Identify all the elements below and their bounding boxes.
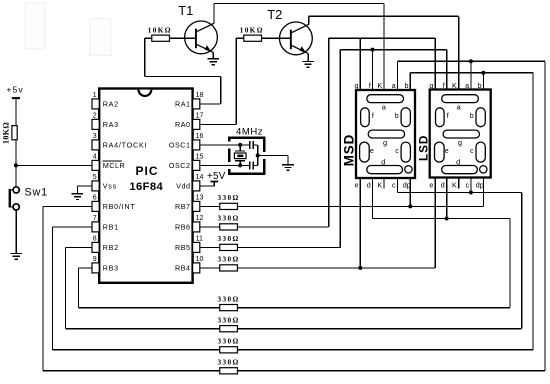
- svg-text:d: d: [381, 157, 385, 166]
- segment a (LSD): [442, 95, 479, 103]
- wire T2 collector to LSD K pin: [309, 16, 459, 89]
- segment e (LSD): [435, 142, 445, 162]
- svg-text:16: 16: [196, 133, 204, 140]
- node OSC1/crystal junction: [238, 143, 242, 147]
- svg-text:c: c: [466, 181, 470, 190]
- ground (T2): [302, 62, 314, 68]
- svg-text:c: c: [395, 148, 399, 155]
- segment c (LSD): [476, 142, 485, 162]
- svg-text:16F84: 16F84: [129, 181, 163, 193]
- MSD top pin labels: [355, 81, 409, 90]
- node MCLR junction: [14, 163, 18, 167]
- wire RA0 pin 17 to T2 base resistor: [200, 38, 244, 124]
- resistor R11 330&#937;: [218, 359, 240, 374]
- svg-text:b: b: [478, 81, 482, 90]
- svg-text:Sw1: Sw1: [25, 186, 48, 198]
- svg-text:RA4/TOCKI: RA4/TOCKI: [103, 141, 148, 150]
- wire RB7 pin 13 to resistor: [200, 205, 220, 207]
- wire bottom row RB2 to right riser: [237, 328, 521, 330]
- wire Vss pin 5 to ground: [77, 185, 92, 187]
- svg-text:10KΩ: 10KΩ: [1, 122, 10, 144]
- svg-text:RB4: RB4: [175, 264, 191, 273]
- pin 15 OSC2: [169, 154, 204, 171]
- wire Sw1 to ground: [15, 210, 17, 254]
- svg-text:K: K: [452, 181, 457, 190]
- svg-text:c: c: [392, 181, 396, 190]
- svg-text:MSD: MSD: [341, 134, 356, 166]
- node MSD dp junction: [408, 204, 412, 208]
- pin 6 RB0/INT: [92, 195, 136, 212]
- svg-text:g: g: [429, 81, 433, 90]
- wire segment c (RB2 riser and c-line to displays): [397, 178, 521, 329]
- svg-text:13: 13: [196, 195, 204, 202]
- wire +5v to pull-up resistor: [15, 99, 17, 126]
- resistor R8 330&#937;: [218, 295, 240, 310]
- svg-text:Vdd: Vdd: [176, 182, 190, 191]
- svg-text:f: f: [372, 113, 374, 120]
- LSD top pin labels: [429, 81, 481, 90]
- svg-text:17: 17: [196, 113, 204, 120]
- resistor R6 330&#937;: [218, 235, 240, 250]
- svg-text:11: 11: [196, 236, 203, 243]
- wire segment e (RB4 row to displays): [237, 178, 435, 268]
- svg-text:330Ω: 330Ω: [218, 235, 240, 243]
- 7-segment display MSD: [341, 90, 415, 178]
- svg-text:10KΩ: 10KΩ: [148, 27, 172, 35]
- crystal oscillator module box (4MHz): [228, 127, 266, 175]
- pin 4 MCLR: [92, 154, 125, 171]
- svg-text:4: 4: [93, 154, 97, 161]
- svg-text:18: 18: [196, 92, 204, 99]
- svg-text:14: 14: [196, 174, 204, 181]
- svg-text:a: a: [465, 81, 469, 90]
- svg-text:f: f: [447, 113, 449, 120]
- svg-text:d: d: [456, 157, 460, 166]
- wire segment a (RB0 riser and a-line to displays): [397, 61, 545, 371]
- ground (Sw1): [10, 254, 22, 260]
- svg-text:e: e: [445, 148, 449, 155]
- svg-text:f: f: [369, 81, 371, 90]
- wire bottom row RB0 to right riser: [237, 370, 545, 372]
- resistor R4 330&#937;: [218, 194, 240, 209]
- svg-text:330Ω: 330Ω: [218, 338, 240, 346]
- capacitor C2 (bottom): [250, 162, 258, 170]
- node LSD a junction: [469, 59, 473, 63]
- segment c (MSD): [401, 142, 410, 162]
- svg-text:330Ω: 330Ω: [218, 316, 240, 324]
- wire RB0 pin 6 to bottom row: [43, 206, 220, 370]
- wire T1 emitter to ground: [212, 52, 214, 59]
- svg-text:330Ω: 330Ω: [218, 359, 240, 367]
- svg-text:d: d: [441, 181, 445, 190]
- svg-text:PIC: PIC: [135, 164, 158, 178]
- node MSD f junction: [371, 48, 375, 52]
- pin 2 RA3: [92, 113, 119, 130]
- node LSD b junction: [481, 71, 485, 75]
- capacitor C1 (top): [250, 141, 258, 149]
- svg-text:T1: T1: [178, 3, 193, 18]
- segment a (MSD): [367, 95, 404, 103]
- svg-text:dp: dp: [403, 181, 411, 190]
- svg-text:d: d: [367, 181, 371, 190]
- svg-text:7: 7: [93, 215, 97, 222]
- LSD bottom pin labels: [429, 181, 483, 190]
- svg-text:10KΩ: 10KΩ: [240, 27, 264, 35]
- node LSD c junction: [469, 191, 473, 195]
- switch Sw1 (push button): [9, 186, 48, 210]
- ground (Vss): [72, 194, 84, 200]
- pin 11 RB5: [175, 236, 203, 253]
- svg-text:2: 2: [93, 113, 97, 120]
- wire T2 emitter to ground: [307, 53, 309, 61]
- pin 1 RA2: [92, 92, 119, 109]
- wire OSC1 pin 16 to crystal: [200, 144, 250, 146]
- resistor R9 330&#937;: [218, 316, 240, 331]
- IC U1 PIC 16F84 body: [99, 89, 192, 283]
- svg-text:10: 10: [196, 256, 204, 263]
- svg-text:Vss: Vss: [103, 182, 117, 191]
- MSD bottom pin labels: [355, 181, 411, 190]
- svg-text:RB1: RB1: [103, 223, 119, 232]
- wire pull-up to MCLR node: [15, 140, 17, 166]
- svg-text:15: 15: [196, 154, 204, 161]
- svg-text:b: b: [395, 113, 399, 120]
- svg-text:3: 3: [93, 133, 97, 140]
- LSD bottom K stub: [458, 178, 460, 189]
- wire R2 to T1 base: [169, 37, 195, 39]
- pin 8 RB2: [92, 236, 119, 253]
- svg-text:12: 12: [196, 215, 204, 222]
- segment f (LSD): [436, 108, 445, 127]
- wire OSC2 pin 15 to crystal: [200, 164, 250, 166]
- resistor R2 10K&#937;: [148, 27, 172, 42]
- pin 7 RB1: [92, 215, 119, 232]
- wire RB5 pin 11 to resistor: [200, 246, 220, 248]
- wire RB4 pin 10 to resistor: [200, 267, 220, 269]
- pin 3 RA4/TOCKI: [92, 133, 147, 150]
- svg-text:g: g: [458, 138, 462, 147]
- wire Vdd pin 14 to +5V: [200, 182, 215, 186]
- wire capacitors common to ground: [258, 145, 288, 166]
- resistor R7 330&#937;: [218, 256, 240, 271]
- svg-text:f: f: [443, 81, 445, 90]
- wire segment d (RB3 riser and d-line to displays): [373, 178, 510, 308]
- wire RB1 pin 7 to bottom row: [53, 227, 220, 350]
- transistor T1 (NPN): [178, 3, 217, 54]
- svg-text:6: 6: [93, 195, 97, 202]
- svg-text:K: K: [452, 81, 457, 90]
- svg-text:RA2: RA2: [103, 100, 119, 109]
- svg-text:330Ω: 330Ω: [218, 194, 240, 202]
- wire R3 to T2 base: [262, 37, 291, 39]
- pin 12 RB6: [175, 215, 204, 232]
- crystal X1: [234, 145, 246, 166]
- svg-text:g: g: [383, 138, 387, 147]
- svg-text:+5V: +5V: [207, 171, 226, 182]
- wire segment f (RB5 row to displays): [237, 50, 446, 248]
- wire T1 collector to MSD K pin: [214, 4, 384, 91]
- segment g (LSD): [443, 130, 479, 138]
- wire RB6 pin 12 to resistor: [200, 226, 220, 228]
- svg-text:LSD: LSD: [416, 135, 430, 161]
- power +5v supply (left rail): [6, 85, 23, 99]
- svg-text:9: 9: [93, 256, 97, 263]
- ground (crystal): [282, 165, 294, 171]
- node LSD d junction: [445, 217, 449, 221]
- segment b (MSD): [401, 108, 410, 127]
- node OSC2/crystal junction: [238, 163, 242, 167]
- svg-text:RB6: RB6: [175, 223, 191, 232]
- resistor R5 330&#937;: [218, 215, 240, 230]
- pin 5 Vss: [92, 174, 117, 191]
- svg-text:RB0/INT: RB0/INT: [103, 202, 136, 211]
- segment b (LSD): [476, 108, 485, 127]
- segment dp (LSD): [480, 166, 487, 173]
- svg-text:dp: dp: [476, 181, 484, 190]
- svg-text:e: e: [355, 181, 359, 190]
- wire RA1 pin 18 to T1 base resistor: [145, 38, 221, 104]
- resistor R3 10K&#937;: [240, 27, 264, 42]
- svg-text:RB7: RB7: [175, 202, 191, 211]
- resistor R10 330&#937;: [218, 338, 240, 353]
- wire MCLR node to pin 4: [16, 164, 92, 166]
- svg-text:RB5: RB5: [175, 243, 191, 252]
- pin 14 Vdd: [176, 174, 203, 191]
- pin 9 RB3: [92, 256, 119, 273]
- 7-segment display LSD: [416, 90, 490, 178]
- power +5V supply at Vdd pin 14: [207, 171, 226, 182]
- svg-text:e: e: [429, 181, 433, 190]
- node capacitor common: [256, 153, 260, 157]
- svg-text:RA3: RA3: [103, 120, 119, 129]
- svg-text:330Ω: 330Ω: [218, 295, 240, 303]
- wire bottom row RB3 to right riser: [237, 307, 509, 309]
- segment d (MSD): [367, 166, 403, 174]
- svg-text:8: 8: [93, 236, 97, 243]
- svg-text:b: b: [405, 81, 409, 90]
- ground (T1): [208, 59, 220, 65]
- segment dp (MSD): [405, 166, 412, 173]
- svg-text:e: e: [370, 148, 374, 155]
- segment g (MSD): [368, 130, 404, 138]
- wire segment b (RB1 riser and b-line to displays): [410, 73, 533, 350]
- wire segment dp (RB7 row to displays): [237, 178, 483, 206]
- pin 17 RA0: [175, 113, 204, 130]
- node MSD e junction: [358, 266, 362, 270]
- svg-text:c: c: [470, 148, 474, 155]
- resistor R1 10KΩ pull-up (vertical): [1, 122, 17, 144]
- wire MCLR node down to Sw1: [15, 165, 17, 186]
- pin 13 RB7: [175, 195, 204, 212]
- svg-text:330Ω: 330Ω: [218, 256, 240, 264]
- svg-text:+5v: +5v: [6, 85, 23, 95]
- wire bottom row RB1 to right riser: [237, 349, 533, 351]
- wire RB2 pin 8 to bottom row: [66, 247, 220, 328]
- svg-text:MCLR: MCLR: [103, 161, 126, 170]
- svg-text:1: 1: [93, 92, 97, 99]
- svg-text:K: K: [377, 81, 382, 90]
- svg-text:g: g: [355, 81, 359, 90]
- svg-text:4MHz: 4MHz: [236, 127, 263, 138]
- svg-text:a: a: [392, 81, 396, 90]
- svg-text:OSC1: OSC1: [169, 141, 191, 150]
- segment d (LSD): [442, 166, 478, 174]
- pin 10 RB4: [175, 256, 204, 273]
- svg-text:RA0: RA0: [175, 120, 191, 129]
- MSD bottom K stub: [383, 178, 385, 189]
- svg-text:b: b: [470, 113, 474, 120]
- svg-text:5: 5: [93, 174, 97, 181]
- svg-text:RB3: RB3: [103, 264, 119, 273]
- pin 16 OSC1: [169, 133, 204, 150]
- svg-text:RA1: RA1: [175, 100, 191, 109]
- svg-text:T2: T2: [267, 7, 282, 22]
- svg-text:OSC2: OSC2: [169, 161, 191, 170]
- segment e (MSD): [360, 142, 370, 162]
- svg-text:K: K: [377, 181, 382, 190]
- svg-text:RB2: RB2: [103, 243, 119, 252]
- svg-text:330Ω: 330Ω: [218, 215, 240, 223]
- pin 18 RA1: [175, 92, 204, 109]
- transistor T2 (NPN): [267, 7, 312, 55]
- wire segment g (RB6 row to displays): [237, 38, 435, 227]
- wire RB3 pin 9 to bottom row: [79, 268, 220, 308]
- segment f (MSD): [361, 108, 370, 127]
